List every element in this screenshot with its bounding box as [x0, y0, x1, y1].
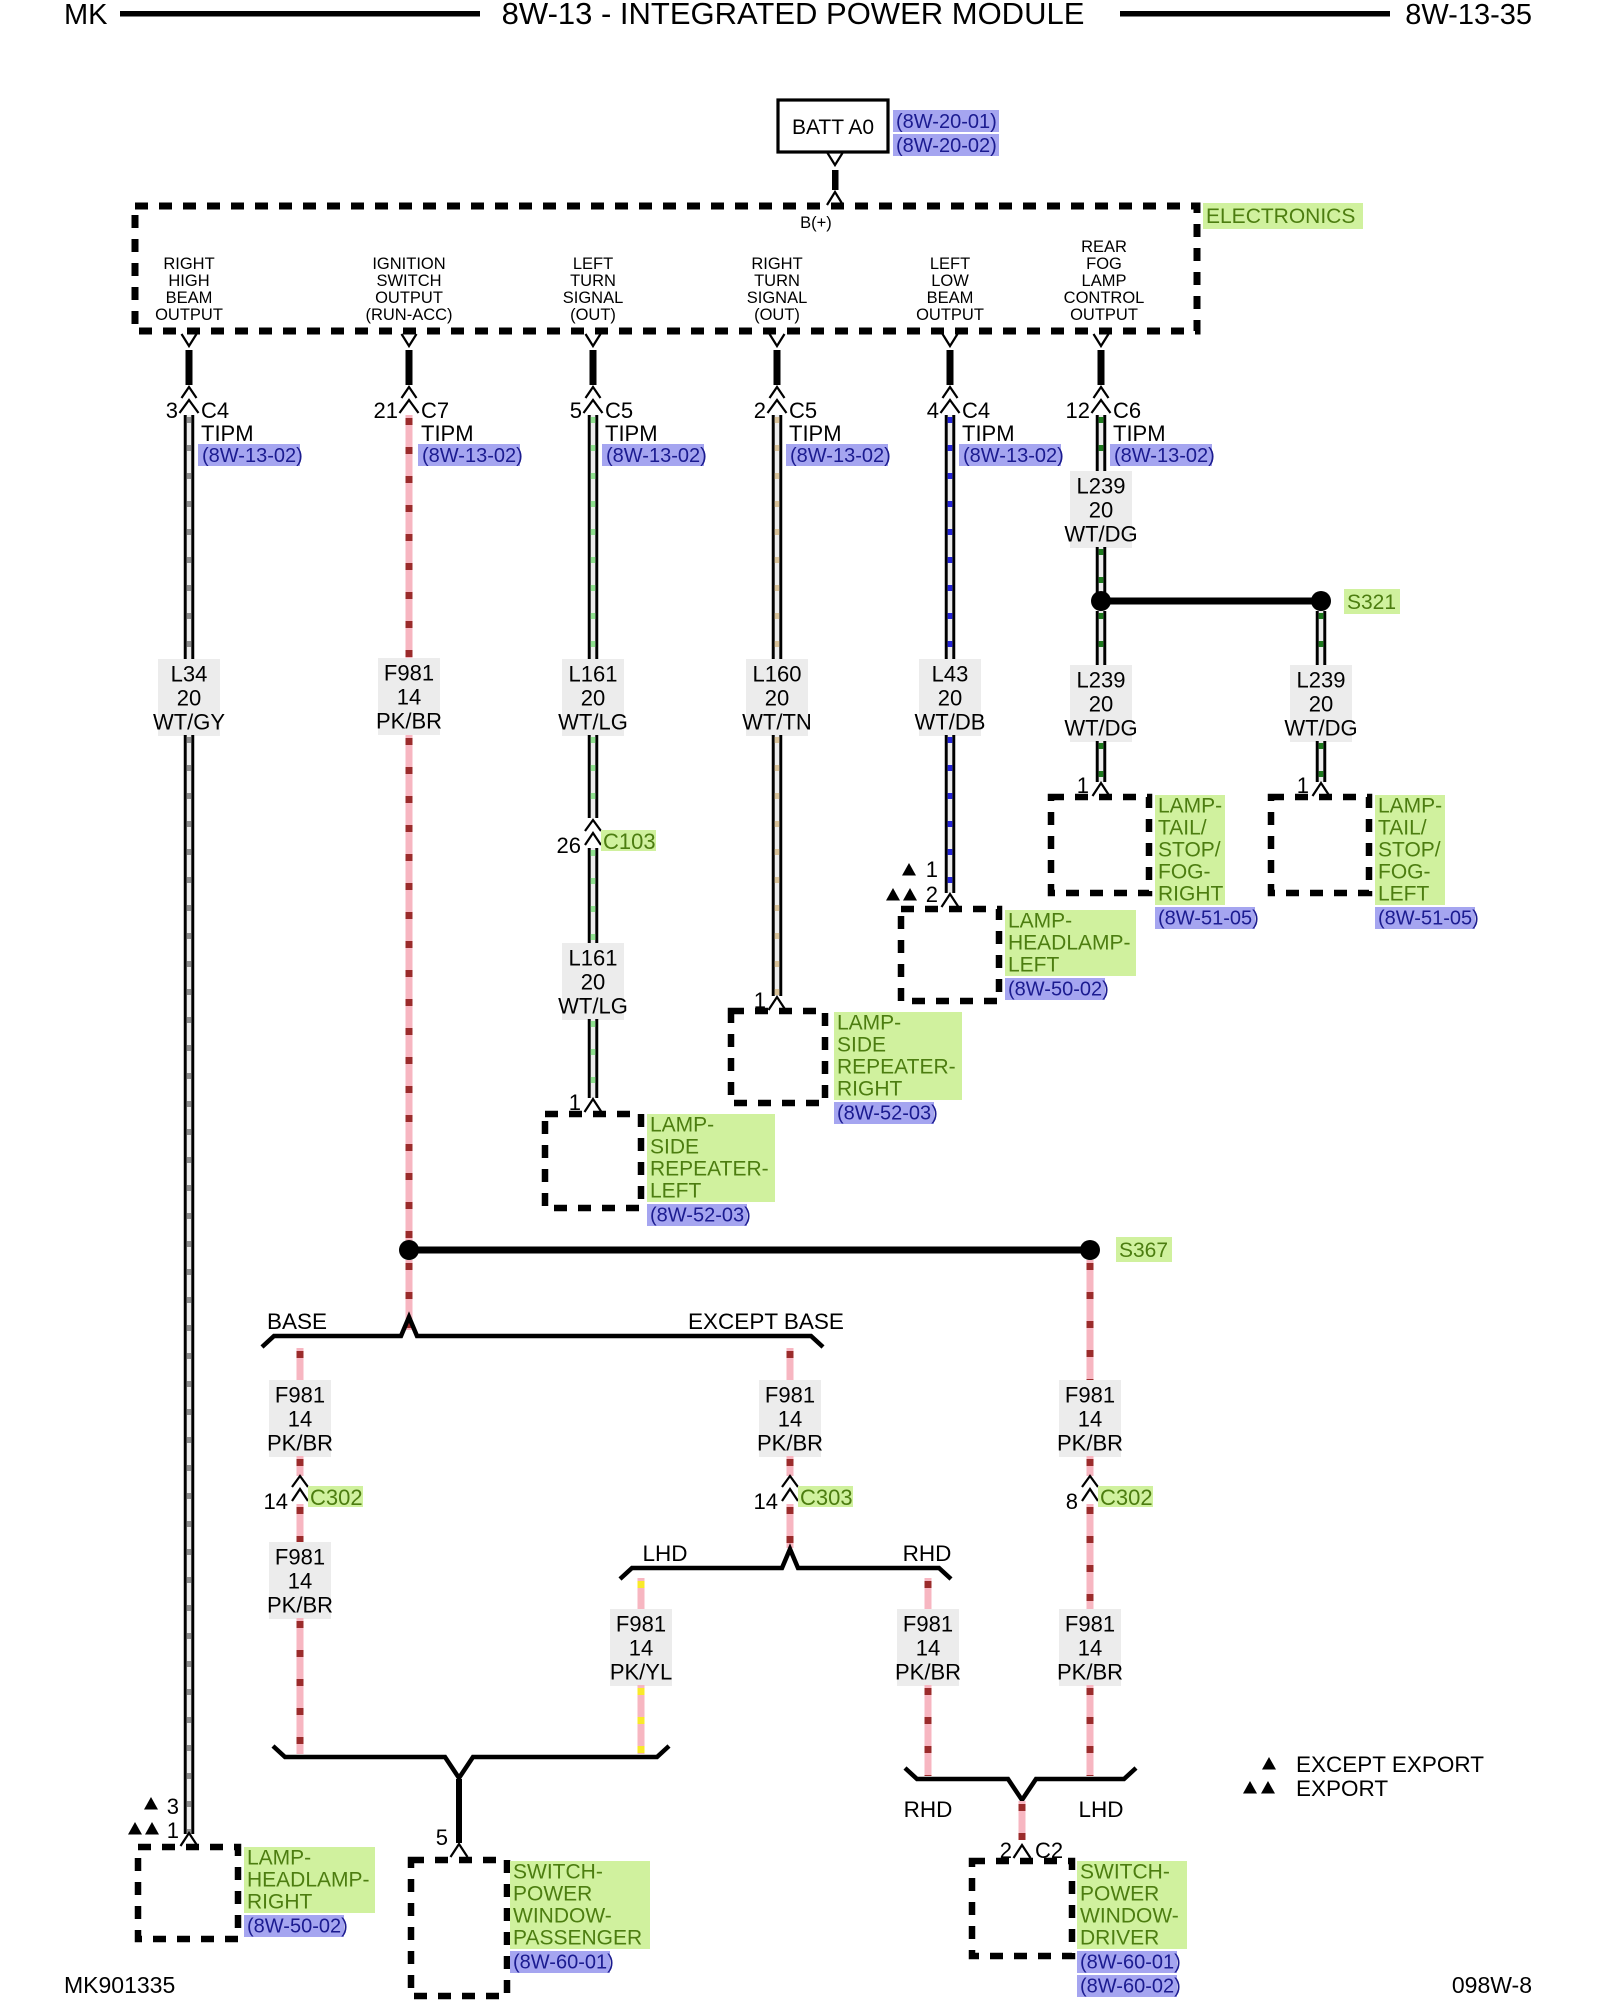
svg-text:C5: C5	[605, 398, 633, 423]
svg-text:(8W-20-02): (8W-20-02)	[896, 135, 997, 157]
svg-text:S321: S321	[1347, 591, 1396, 614]
component box SWITCH-POWER WINDOW-PASSENGER	[411, 1860, 507, 1996]
svg-text:WT/DG: WT/DG	[1064, 716, 1137, 741]
svg-text:LAMP-: LAMP-	[837, 1012, 901, 1035]
component label SWITCH-POWER WINDOW-DRIVER	[1077, 1861, 1187, 1950]
component box LAMP-TAIL/STOP/FOG-LEFT	[1271, 797, 1369, 893]
svg-text:(8W-13-02): (8W-13-02)	[1114, 445, 1215, 467]
wire label F981 14 PK/BR BASE lower	[267, 1542, 333, 1619]
svg-text:FOG-: FOG-	[1158, 861, 1211, 884]
wire label F981 14 PK/BR BASE	[267, 1380, 333, 1457]
svg-text:TIPM: TIPM	[201, 421, 254, 446]
component label LAMP-TAIL/STOP/FOG-RIGHT	[1155, 795, 1225, 906]
svg-text:20: 20	[938, 686, 962, 711]
wire L160 to lamp side repeater right	[772, 735, 783, 996]
component box LAMP-TAIL/STOP/FOG-RIGHT	[1051, 797, 1149, 893]
svg-text:HEADLAMP-: HEADLAMP-	[247, 1869, 370, 1892]
wire label L43 20 WT/DB	[915, 659, 986, 736]
svg-text:S367: S367	[1119, 1239, 1168, 1262]
svg-text:F981: F981	[765, 1383, 815, 1408]
svg-text:WT/LG: WT/LG	[558, 710, 628, 735]
link 8W-51-05 of LAMP-TAIL/STOP/FOG-RIGHT	[1155, 907, 1259, 930]
svg-text:21: 21	[374, 398, 398, 423]
wire L161 below C103	[588, 848, 599, 943]
component box LAMP-SIDE REPEATER-RIGHT	[731, 1011, 825, 1103]
pin marker export 1	[128, 1818, 179, 1843]
wire L239 to tail lamp right	[1096, 741, 1107, 782]
wire F981 to splice S367	[406, 735, 413, 1250]
svg-text:WT/LG: WT/LG	[558, 994, 628, 1019]
svg-text:LAMP-: LAMP-	[1008, 910, 1072, 933]
wire L239 to tail lamp left	[1316, 741, 1327, 782]
split brace BASE / EXCEPT BASE	[262, 1317, 823, 1347]
svg-text:26: 26	[557, 833, 581, 858]
svg-text:OUTPUT: OUTPUT	[375, 289, 443, 307]
svg-text:3: 3	[166, 398, 178, 423]
wire F981 below C302 pin 8	[1087, 1504, 1094, 1609]
link 8W-13-02 of C4 left low beam	[959, 444, 1064, 467]
svg-text:SIDE: SIDE	[837, 1034, 886, 1057]
wire F981 into driver switch	[1019, 1801, 1026, 1840]
connector chevron into LAMP-TAIL/STOP/FOG-LEFT	[1313, 783, 1330, 796]
TIPM output connector C7 ignition switch output pin 21	[374, 334, 474, 446]
svg-text:STOP/: STOP/	[1158, 839, 1221, 862]
wire F981 BASE branch upper	[297, 1348, 304, 1380]
wire F981 into C303	[787, 1456, 794, 1478]
svg-text:(8W-13-02): (8W-13-02)	[202, 445, 303, 467]
svg-text:4: 4	[927, 398, 939, 423]
wire L161 into C103	[588, 735, 599, 818]
link 8W-51-05 of LAMP-TAIL/STOP/FOG-LEFT	[1375, 907, 1479, 930]
svg-text:20: 20	[1089, 692, 1113, 717]
svg-text:L43: L43	[932, 662, 969, 687]
svg-text:POWER: POWER	[513, 1883, 592, 1906]
svg-text:B(+): B(+)	[800, 214, 832, 232]
svg-text:LEFT: LEFT	[1378, 883, 1430, 906]
svg-text:RHD: RHD	[903, 1541, 952, 1566]
wire L160 upper segment	[772, 415, 783, 659]
pin label RIGHT HIGH BEAM OUTPUT	[155, 255, 223, 324]
svg-text:C7: C7	[421, 398, 449, 423]
svg-text:POWER: POWER	[1080, 1883, 1159, 1906]
svg-text:(8W-60-02): (8W-60-02)	[1080, 1976, 1181, 1998]
svg-text:WT/DG: WT/DG	[1284, 716, 1357, 741]
link 8W-13-02 of C6 rear fog lamp	[1110, 444, 1215, 467]
component label LAMP-SIDE REPEATER-RIGHT	[834, 1012, 962, 1101]
pin marker except-export 3	[144, 1794, 179, 1819]
svg-text:(8W-60-01): (8W-60-01)	[1080, 1952, 1181, 1974]
svg-text:14: 14	[288, 1569, 312, 1594]
svg-text:C4: C4	[201, 398, 229, 423]
TIPM output connector C5 left turn signal pin 5	[570, 334, 658, 446]
component label LAMP-TAIL/STOP/FOG-LEFT	[1375, 795, 1445, 906]
svg-text:REAR: REAR	[1081, 238, 1127, 256]
svg-text:PK/BR: PK/BR	[895, 1660, 961, 1685]
svg-text:14: 14	[778, 1407, 802, 1432]
wire L239 upper segment	[1096, 415, 1107, 471]
svg-text:F981: F981	[1065, 1612, 1115, 1637]
pin label LEFT TURN SIGNAL (OUT)	[563, 255, 624, 324]
connector chevron into LAMP-HEADLAMP-RIGHT	[181, 1833, 198, 1846]
wire L43 to headlamp left	[945, 735, 956, 893]
svg-text:RIGHT: RIGHT	[247, 1891, 313, 1914]
svg-text:L239: L239	[1077, 474, 1126, 499]
TIPM output connector C5 right turn signal pin 2	[754, 334, 842, 446]
svg-text:(8W-13-02): (8W-13-02)	[422, 445, 523, 467]
svg-text:C303: C303	[800, 1485, 853, 1510]
svg-text:LAMP-: LAMP-	[1378, 795, 1442, 818]
connector C302 pin 8	[1066, 1476, 1098, 1514]
svg-text:PK/BR: PK/BR	[1057, 1660, 1123, 1685]
connector label C303	[798, 1485, 853, 1510]
wire label F981 14 PK/BR	[376, 658, 442, 735]
svg-text:PK/BR: PK/BR	[1057, 1431, 1123, 1456]
svg-text:SWITCH-: SWITCH-	[1080, 1861, 1170, 1884]
svg-text:14: 14	[288, 1407, 312, 1432]
svg-text:CONTROL: CONTROL	[1064, 289, 1145, 307]
wire label L161 20 WT/LG	[558, 659, 628, 736]
svg-text:TIPM: TIPM	[962, 421, 1015, 446]
svg-text:REPEATER-: REPEATER-	[650, 1158, 769, 1181]
component box LAMP-HEADLAMP-RIGHT	[138, 1847, 238, 1939]
svg-text:2: 2	[926, 882, 938, 907]
svg-text:LAMP-: LAMP-	[1158, 795, 1222, 818]
link 8W-13-02 of C5 left turn signal	[602, 444, 707, 467]
wire label F981 14 PK/BR right	[1057, 1380, 1123, 1457]
wire L239 left branch upper	[1096, 611, 1107, 665]
svg-text:14: 14	[1078, 1636, 1102, 1661]
svg-text:HIGH: HIGH	[168, 272, 209, 290]
svg-text:20: 20	[1089, 498, 1113, 523]
svg-text:5: 5	[436, 1825, 448, 1850]
svg-text:L161: L161	[569, 662, 618, 687]
wire L161 to lamp side repeater left	[588, 1019, 599, 1098]
svg-text:C103: C103	[603, 829, 656, 854]
svg-text:F981: F981	[1065, 1383, 1115, 1408]
svg-text:OUTPUT: OUTPUT	[1070, 306, 1138, 324]
component box LAMP-SIDE REPEATER-LEFT	[545, 1114, 641, 1208]
svg-text:WT/GY: WT/GY	[153, 710, 225, 735]
svg-text:14: 14	[397, 685, 421, 710]
connector chevron into SWITCH-POWER WINDOW-PASSENGER	[451, 1844, 468, 1857]
wire L34 upper segment	[184, 415, 195, 659]
svg-text:(OUT): (OUT)	[570, 306, 616, 324]
wire label L239 20 WT/DG	[1064, 471, 1137, 548]
svg-text:TIPM: TIPM	[605, 421, 658, 446]
svg-text:PK/BR: PK/BR	[757, 1431, 823, 1456]
component label SWITCH-POWER WINDOW-PASSENGER	[510, 1861, 650, 1950]
svg-text:TIPM: TIPM	[789, 421, 842, 446]
wire L43 upper segment	[945, 415, 956, 659]
svg-text:RIGHT: RIGHT	[837, 1078, 903, 1101]
wire F981 BASE into C302	[297, 1456, 304, 1478]
link 8W-60-01 of SWITCH-POWER WINDOW-DRIVER	[1077, 1951, 1181, 1974]
svg-text:LAMP: LAMP	[1082, 272, 1127, 290]
connector from BATT A0 to TIPM B(+)	[827, 153, 843, 205]
header rule left	[120, 11, 480, 17]
svg-text:8W-13 - INTEGRATED POWER MODUL: 8W-13 - INTEGRATED POWER MODULE	[502, 0, 1085, 31]
svg-text:MK901335: MK901335	[64, 1972, 175, 1998]
svg-text:TURN: TURN	[754, 272, 800, 290]
svg-text:FOG: FOG	[1086, 255, 1122, 273]
svg-text:L161: L161	[569, 946, 618, 971]
svg-text:FOG-: FOG-	[1378, 861, 1431, 884]
svg-text:LEFT: LEFT	[650, 1180, 702, 1203]
svg-text:WINDOW-: WINDOW-	[513, 1905, 612, 1928]
svg-text:LOW: LOW	[931, 272, 969, 290]
svg-text:LEFT: LEFT	[573, 255, 613, 273]
wire label F981 14 PK/BR RHD	[895, 1609, 961, 1686]
wire label F981 14 PK/BR EXCEPT BASE	[757, 1380, 823, 1457]
svg-text:1: 1	[167, 1818, 179, 1843]
svg-text:RIGHT: RIGHT	[163, 255, 214, 273]
component label LAMP-HEADLAMP-RIGHT	[244, 1847, 375, 1914]
svg-text:L34: L34	[171, 662, 208, 687]
svg-text:1: 1	[926, 857, 938, 882]
connector chevron into LAMP-SIDE REPEATER-LEFT	[585, 1099, 602, 1112]
wire F981 into C302 pin 8	[1087, 1456, 1094, 1478]
svg-text:F981: F981	[903, 1612, 953, 1637]
link 8W-20-01 of BATT A0	[893, 110, 999, 133]
svg-text:OUTPUT: OUTPUT	[916, 306, 984, 324]
svg-text:L239: L239	[1077, 668, 1126, 693]
connector C303 pin 14	[754, 1476, 798, 1514]
svg-text:HEADLAMP-: HEADLAMP-	[1008, 932, 1131, 955]
wire F981 RHD to merge	[925, 1685, 932, 1776]
svg-text:PASSENGER: PASSENGER	[513, 1927, 642, 1950]
svg-text:STOP/: STOP/	[1378, 839, 1441, 862]
link 8W-50-02 of LAMP-HEADLAMP-LEFT	[1005, 978, 1109, 1001]
wire F981 right to merge	[1087, 1685, 1094, 1776]
svg-text:2: 2	[754, 398, 766, 423]
svg-text:14: 14	[629, 1636, 653, 1661]
svg-text:BASE: BASE	[267, 1309, 327, 1334]
svg-text:SWITCH: SWITCH	[376, 272, 441, 290]
TIPM output connector C4 right high beam pin 3	[166, 334, 254, 446]
svg-text:LEFT: LEFT	[930, 255, 970, 273]
svg-text:WT/DB: WT/DB	[915, 710, 986, 735]
component box LAMP-HEADLAMP-LEFT	[901, 909, 999, 1001]
svg-text:BATT A0: BATT A0	[792, 116, 874, 139]
link 8W-13-02 of C4 right high beam	[198, 444, 303, 467]
connector label C302	[1098, 1485, 1153, 1510]
svg-text:SIDE: SIDE	[650, 1136, 699, 1159]
svg-text:WT/TN: WT/TN	[742, 710, 812, 735]
wire label F981 14 PK/BR right lower	[1057, 1609, 1123, 1686]
svg-text:SIGNAL: SIGNAL	[563, 289, 624, 307]
svg-text:(OUT): (OUT)	[754, 306, 800, 324]
svg-text:PK/YL: PK/YL	[610, 1660, 672, 1685]
svg-text:(8W-50-02): (8W-50-02)	[247, 1916, 348, 1938]
svg-text:TAIL/: TAIL/	[1378, 817, 1427, 840]
link 8W-60-02 of SWITCH-POWER WINDOW-DRIVER	[1077, 1975, 1181, 1998]
link 8W-60-01 of SWITCH-POWER WINDOW-PASSENGER	[510, 1951, 614, 1974]
svg-text:TAIL/: TAIL/	[1158, 817, 1207, 840]
svg-text:ELECTRONICS: ELECTRONICS	[1206, 205, 1355, 228]
wire F981 RHD branch upper	[925, 1578, 932, 1609]
svg-text:PK/BR: PK/BR	[267, 1593, 333, 1618]
svg-text:EXPORT: EXPORT	[1296, 1776, 1388, 1801]
svg-text:EXCEPT BASE: EXCEPT BASE	[688, 1309, 844, 1334]
connector chevron into LAMP-HEADLAMP-LEFT	[942, 894, 959, 907]
svg-text:TURN: TURN	[570, 272, 616, 290]
wire F981 below C303	[787, 1504, 794, 1548]
svg-text:(8W-52-03): (8W-52-03)	[650, 1205, 751, 1227]
svg-text:14: 14	[754, 1489, 778, 1514]
svg-text:F981: F981	[275, 1545, 325, 1570]
svg-text:(8W-52-03): (8W-52-03)	[837, 1103, 938, 1125]
svg-text:20: 20	[1309, 692, 1333, 717]
svg-text:BEAM: BEAM	[927, 289, 974, 307]
link 8W-13-02 of C7 ignition switch output	[418, 444, 523, 467]
merge brace RHD + LHD merge	[905, 1768, 1136, 1800]
svg-text:14: 14	[916, 1636, 940, 1661]
wire L239 right branch upper	[1316, 611, 1327, 665]
connector label C103	[601, 829, 656, 854]
svg-text:C302: C302	[310, 1485, 363, 1510]
pin label REAR FOG LAMP CONTROL OUTPUT	[1064, 238, 1145, 324]
svg-text:MK: MK	[64, 0, 108, 31]
splice S367	[399, 1240, 1100, 1260]
connector label C302	[308, 1485, 363, 1510]
svg-text:5: 5	[570, 398, 582, 423]
connector chevron into SWITCH-POWER WINDOW-DRIVER	[1014, 1845, 1031, 1858]
svg-text:F981: F981	[384, 661, 434, 686]
wire label L161 20 WT/LG lower	[558, 943, 628, 1020]
svg-text:20: 20	[581, 970, 605, 995]
svg-text:098W-8: 098W-8	[1452, 1972, 1532, 1998]
pin marker export 2	[886, 882, 938, 907]
svg-text:LAMP-: LAMP-	[247, 1847, 311, 1870]
svg-text:SIGNAL: SIGNAL	[747, 289, 808, 307]
wire F981 right branch upper	[1087, 1260, 1094, 1380]
wire to switch-power window-passenger	[456, 1779, 462, 1843]
svg-text:C5: C5	[789, 398, 817, 423]
svg-text:(8W-51-05): (8W-51-05)	[1158, 908, 1259, 930]
svg-text:REPEATER-: REPEATER-	[837, 1056, 956, 1079]
pin label LEFT LOW BEAM OUTPUT	[916, 255, 984, 324]
svg-text:RIGHT: RIGHT	[1158, 883, 1224, 906]
split brace LHD / RHD	[620, 1549, 951, 1579]
battery feed BATT A0	[778, 100, 888, 152]
svg-text:EXCEPT EXPORT: EXCEPT EXPORT	[1296, 1752, 1484, 1777]
svg-text:(8W-50-02): (8W-50-02)	[1008, 979, 1109, 1001]
link 8W-20-02 of BATT A0	[893, 134, 999, 157]
wire label F981 14 PK/YL	[610, 1609, 672, 1686]
connector C103 pin 26	[557, 820, 601, 858]
svg-text:8: 8	[1066, 1489, 1078, 1514]
component label LAMP-HEADLAMP-LEFT	[1005, 910, 1136, 977]
wire F981 EXCEPT BASE upper	[787, 1348, 794, 1380]
svg-text:14: 14	[1078, 1407, 1102, 1432]
component box SWITCH-POWER WINDOW-DRIVER	[972, 1861, 1072, 1956]
link 8W-52-03 of LAMP-SIDE REPEATER-LEFT	[647, 1204, 751, 1227]
legend except export	[1262, 1752, 1484, 1777]
TIPM output connector C4 left low beam pin 4	[927, 334, 1015, 446]
merge brace BASE + LHD merge	[273, 1746, 669, 1778]
connector C302 pin 14	[264, 1476, 308, 1514]
splice S321	[1091, 591, 1331, 611]
svg-text:RIGHT: RIGHT	[751, 255, 802, 273]
wire L161 upper segment	[588, 415, 599, 659]
svg-text:TIPM: TIPM	[1113, 421, 1166, 446]
wire label L239 20 WT/DG left	[1064, 665, 1137, 742]
legend export	[1243, 1776, 1388, 1801]
svg-text:IGNITION: IGNITION	[372, 255, 445, 273]
svg-text:(8W-20-01): (8W-20-01)	[896, 111, 997, 133]
TIPM module box ELECTRONICS	[135, 206, 1197, 331]
svg-text:L239: L239	[1297, 668, 1346, 693]
connector chevron into LAMP-SIDE REPEATER-RIGHT	[769, 997, 786, 1010]
svg-text:L160: L160	[753, 662, 802, 687]
svg-text:8W-13-35: 8W-13-35	[1405, 0, 1532, 31]
svg-text:3: 3	[167, 1794, 179, 1819]
wire label L239 20 WT/DG right	[1284, 665, 1357, 742]
svg-text:LHD: LHD	[642, 1541, 687, 1566]
svg-text:F981: F981	[275, 1383, 325, 1408]
link 8W-52-03 of LAMP-SIDE REPEATER-RIGHT	[834, 1102, 938, 1125]
pin marker except-export 1	[902, 857, 938, 882]
svg-text:14: 14	[264, 1489, 288, 1514]
wire F981 below S367	[406, 1260, 413, 1330]
wire F981 LHD to merge	[638, 1685, 645, 1754]
svg-text:SWITCH-: SWITCH-	[513, 1861, 603, 1884]
svg-text:RHD: RHD	[904, 1797, 953, 1822]
svg-text:(RUN-ACC): (RUN-ACC)	[365, 306, 452, 324]
wire label L160 20 WT/TN	[742, 659, 812, 736]
svg-text:F981: F981	[616, 1612, 666, 1637]
pin label RIGHT TURN SIGNAL (OUT)	[747, 255, 808, 324]
svg-text:PK/BR: PK/BR	[376, 709, 442, 734]
wire F981 LHD branch upper	[638, 1578, 645, 1609]
wire L34 lower segment	[184, 735, 195, 1834]
svg-text:TIPM: TIPM	[421, 421, 474, 446]
pin 2 and connector C2	[1000, 1838, 1063, 1863]
svg-text:20: 20	[581, 686, 605, 711]
svg-text:(8W-60-01): (8W-60-01)	[513, 1952, 614, 1974]
TIPM output connector C6 rear fog lamp pin 12	[1066, 334, 1166, 446]
header rule right	[1120, 11, 1390, 17]
svg-text:LHD: LHD	[1078, 1797, 1123, 1822]
wire F981 BASE to merge	[297, 1618, 304, 1754]
svg-text:20: 20	[765, 686, 789, 711]
svg-text:PK/BR: PK/BR	[267, 1431, 333, 1456]
svg-text:WINDOW-: WINDOW-	[1080, 1905, 1179, 1928]
link 8W-50-02 of LAMP-HEADLAMP-RIGHT	[244, 1915, 348, 1938]
svg-text:(8W-51-05): (8W-51-05)	[1378, 908, 1479, 930]
svg-text:(8W-13-02): (8W-13-02)	[606, 445, 707, 467]
svg-text:C6: C6	[1113, 398, 1141, 423]
wire label L34 20 WT/GY	[153, 659, 225, 736]
svg-text:LEFT: LEFT	[1008, 954, 1060, 977]
svg-text:12: 12	[1066, 398, 1090, 423]
svg-text:(8W-13-02): (8W-13-02)	[963, 445, 1064, 467]
svg-text:C302: C302	[1100, 1485, 1153, 1510]
svg-text:20: 20	[177, 686, 201, 711]
link 8W-13-02 of C5 right turn signal	[786, 444, 891, 467]
wire L239 into S321	[1096, 547, 1107, 601]
svg-text:WT/DG: WT/DG	[1064, 522, 1137, 547]
wire F981 upper segment	[406, 415, 413, 658]
svg-text:LAMP-: LAMP-	[650, 1114, 714, 1137]
wire F981 BASE below C302	[297, 1504, 304, 1542]
splice label S367	[1116, 1237, 1172, 1262]
svg-text:C4: C4	[962, 398, 990, 423]
svg-text:BEAM: BEAM	[166, 289, 213, 307]
svg-text:OUTPUT: OUTPUT	[155, 306, 223, 324]
module label ELECTRONICS	[1203, 203, 1363, 229]
connector chevron into LAMP-TAIL/STOP/FOG-RIGHT	[1093, 783, 1110, 796]
